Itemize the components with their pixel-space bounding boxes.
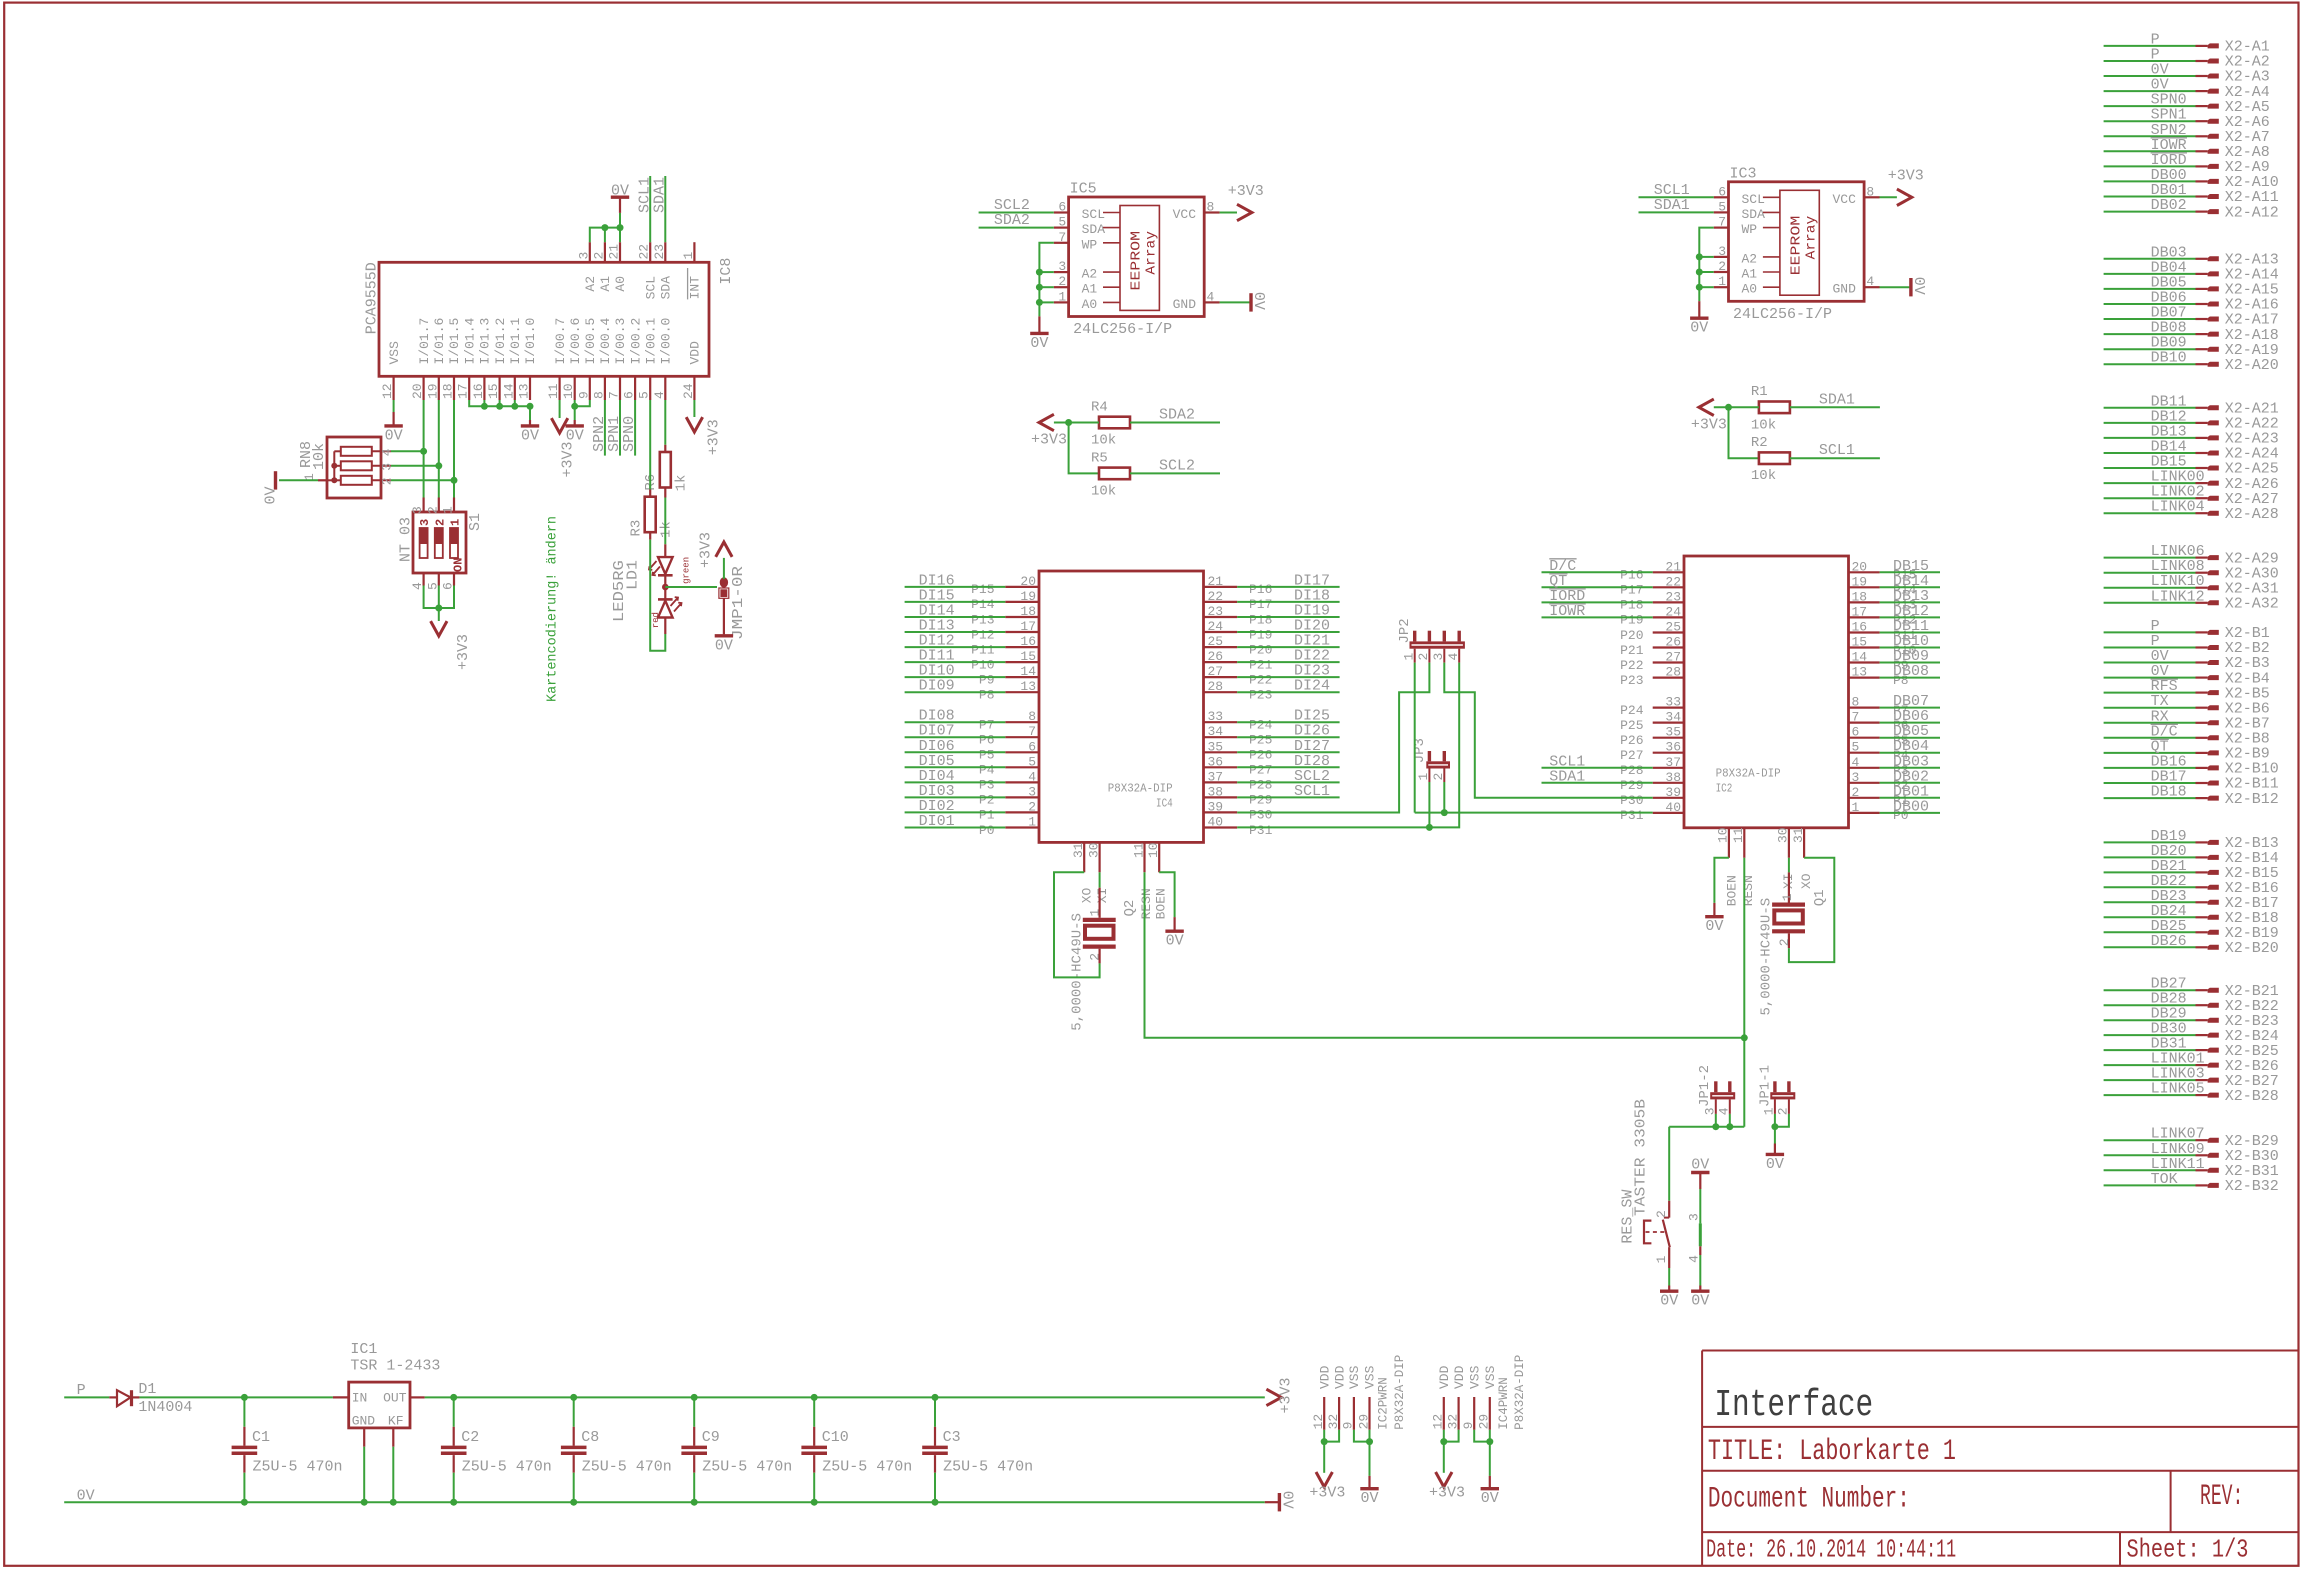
ground 0V at IC8 pin10 net bbox=[566, 424, 584, 427]
svg-text:P19: P19 bbox=[1249, 627, 1272, 642]
ground 0V at rail end bbox=[1265, 1501, 1279, 1503]
svg-text:1: 1 bbox=[681, 252, 696, 260]
svg-text:SDA1: SDA1 bbox=[1654, 197, 1690, 214]
svg-text:1: 1 bbox=[1416, 773, 1431, 781]
svg-text:6: 6 bbox=[1852, 725, 1860, 740]
svg-text:P30: P30 bbox=[1620, 793, 1643, 808]
IC2 pin 8 P7 net DB07 bbox=[1849, 706, 1880, 708]
svg-text:P17: P17 bbox=[1249, 597, 1272, 612]
svg-text:Document Number:: Document Number: bbox=[1708, 1483, 1910, 1517]
svg-text:SCL2: SCL2 bbox=[1159, 457, 1195, 474]
svg-text:P27: P27 bbox=[1249, 763, 1272, 778]
connector pin X2-A27 net LINK02 bbox=[2104, 497, 2196, 499]
svg-text:JP1-2: JP1-2 bbox=[1697, 1065, 1713, 1107]
svg-text:DB18: DB18 bbox=[2151, 784, 2187, 801]
ground 0V at IC8 pin13 net bbox=[521, 424, 539, 427]
svg-text:20: 20 bbox=[1852, 559, 1868, 574]
svg-text:23: 23 bbox=[652, 244, 667, 260]
svg-text:21: 21 bbox=[607, 244, 622, 260]
svg-text:DB08: DB08 bbox=[1893, 663, 1929, 680]
svg-text:10k: 10k bbox=[1751, 417, 1776, 433]
svg-text:20: 20 bbox=[1020, 574, 1036, 589]
svg-text:1: 1 bbox=[449, 519, 463, 526]
svg-text:Z5U-5 470n: Z5U-5 470n bbox=[822, 1459, 912, 1476]
svg-text:3: 3 bbox=[410, 506, 425, 514]
wire IC4 BOEN to ground bbox=[1159, 872, 1174, 917]
svg-text:I/00.0: I/00.0 bbox=[659, 318, 674, 365]
svg-text:P8X32A-DIP: P8X32A-DIP bbox=[1393, 1355, 1407, 1430]
wire IC3 WP to ground chain bbox=[1699, 228, 1713, 302]
svg-text:P31: P31 bbox=[1620, 808, 1644, 823]
IC4 pin 36 P27 net DI28 bbox=[1204, 766, 1238, 768]
connector pin X2-A15 net DB05 bbox=[2104, 288, 2196, 290]
IC4 pin 19 P14 net DI15 bbox=[1005, 601, 1039, 603]
supply +3V3 at S1 bbox=[431, 621, 447, 636]
svg-text:1: 1 bbox=[1718, 274, 1726, 289]
svg-text:2: 2 bbox=[1654, 1210, 1669, 1218]
capacitor C8 Z5U-5 470n bbox=[570, 1394, 577, 1401]
jumper JP1-2 bbox=[1710, 1092, 1735, 1099]
supply +3V3 at IC8 pin24 bbox=[686, 417, 702, 432]
svg-text:X2-A12: X2-A12 bbox=[2225, 204, 2279, 221]
svg-text:A1: A1 bbox=[598, 276, 613, 292]
IC4 pin 13 P8 net DI09 bbox=[1005, 691, 1039, 693]
wire JP2 pin1 to IC2 P31 bbox=[1414, 663, 1416, 813]
svg-text:IC2PWRN: IC2PWRN bbox=[1377, 1377, 1391, 1430]
connector pin X2-B16 net DB22 bbox=[2104, 886, 2196, 888]
svg-text:23: 23 bbox=[1665, 589, 1681, 604]
svg-text:R4: R4 bbox=[1091, 399, 1108, 415]
IC8 pin 17 I/01.4 bbox=[468, 376, 470, 400]
connector pin X2-A22 net DB12 bbox=[2104, 422, 2196, 424]
ground 0V above IC8 bbox=[611, 195, 629, 198]
svg-text:INT: INT bbox=[688, 276, 703, 300]
supply +3V3 at JMP1 bbox=[716, 542, 732, 557]
svg-text:24: 24 bbox=[1665, 604, 1681, 619]
svg-text:C2: C2 bbox=[461, 1429, 479, 1446]
svg-text:5: 5 bbox=[1718, 199, 1726, 214]
svg-text:JMP1-0R: JMP1-0R bbox=[730, 566, 747, 640]
wire IC4 XO loop to crystal bbox=[1054, 872, 1100, 977]
svg-text:10k: 10k bbox=[1091, 483, 1116, 499]
svg-text:I/00.7: I/00.7 bbox=[553, 318, 568, 365]
IC2 pin 4 P3 net DB03 bbox=[1849, 767, 1880, 769]
net SCL1 wire at R2 bbox=[1790, 457, 1880, 459]
IC2 pin 40 P31 bbox=[1653, 812, 1684, 814]
connector pin X2-A12 net DB02 bbox=[2104, 211, 2196, 213]
IC8 pin 6 I/00.2 bbox=[634, 376, 636, 400]
svg-text:Q1: Q1 bbox=[1812, 889, 1828, 906]
IC8 pin 1 INT bbox=[693, 242, 695, 262]
svg-text:IC5: IC5 bbox=[1070, 181, 1097, 198]
svg-text:VDD: VDD bbox=[1437, 1365, 1452, 1389]
svg-text:13: 13 bbox=[1020, 679, 1036, 694]
svg-text:A0: A0 bbox=[613, 276, 628, 292]
svg-text:16: 16 bbox=[1020, 634, 1036, 649]
svg-text:P5: P5 bbox=[979, 748, 995, 763]
connector pin X2-A5 net SPN0 bbox=[2104, 105, 2196, 107]
wire IC2PWRN VDD to +3V3 bbox=[1323, 1430, 1325, 1473]
svg-text:X2-B32: X2-B32 bbox=[2225, 1178, 2279, 1195]
svg-text:P8X32A-DIP: P8X32A-DIP bbox=[1108, 782, 1173, 796]
svg-text:X2-B28: X2-B28 bbox=[2225, 1088, 2279, 1105]
IC2 pin 36 P27 bbox=[1653, 752, 1684, 754]
svg-text:P10: P10 bbox=[971, 657, 994, 672]
svg-text:18: 18 bbox=[1020, 604, 1036, 619]
svg-text:3: 3 bbox=[1687, 1213, 1702, 1221]
svg-text:7: 7 bbox=[1852, 710, 1860, 725]
ground 0V at switch pin4 bbox=[1691, 1289, 1709, 1292]
IC8 pin 4 I/00.0 bbox=[664, 376, 666, 400]
svg-text:IOWR: IOWR bbox=[1549, 603, 1585, 620]
svg-text:VSS: VSS bbox=[1467, 1365, 1482, 1389]
svg-text:15: 15 bbox=[1020, 649, 1036, 664]
svg-text:17: 17 bbox=[1852, 604, 1868, 619]
svg-text:A0: A0 bbox=[1742, 282, 1758, 297]
svg-text:P8X32A-DIP: P8X32A-DIP bbox=[1513, 1355, 1527, 1430]
svg-text:6: 6 bbox=[622, 391, 637, 399]
svg-text:SDA1: SDA1 bbox=[1819, 391, 1855, 408]
ground 0V at IC3 GND bbox=[1909, 278, 1912, 296]
svg-text:0V: 0V bbox=[521, 427, 539, 444]
connector pin X2-B26 net LINK01 bbox=[2104, 1064, 2196, 1066]
IC4 pin 1 P0 net DI01 bbox=[1005, 826, 1039, 828]
ground 0V at IC4PWRN bbox=[1481, 1487, 1499, 1490]
svg-text:8: 8 bbox=[591, 391, 606, 399]
svg-text:TITLE: Laborkarte 1: TITLE: Laborkarte 1 bbox=[1708, 1435, 1956, 1469]
svg-text:7: 7 bbox=[1028, 724, 1036, 739]
svg-text:I/01.6: I/01.6 bbox=[432, 318, 447, 365]
svg-text:1: 1 bbox=[441, 506, 456, 514]
IC4 pin 14 P9 net DI10 bbox=[1005, 676, 1039, 678]
connector pin X2-A19 net DB09 bbox=[2104, 348, 2196, 350]
connector pin X2-B20 net DB26 bbox=[2104, 946, 2196, 948]
connector pin X2-B8 net D/C bbox=[2104, 737, 2196, 739]
IC4 pin 4 P3 net DI04 bbox=[1005, 781, 1039, 783]
IC5 pin 8 VCC to +3V3 bbox=[1204, 211, 1219, 213]
svg-text:I/00.5: I/00.5 bbox=[583, 318, 598, 365]
svg-text:P20: P20 bbox=[1249, 642, 1272, 657]
connector pin X2-B28 net LINK05 bbox=[2104, 1094, 2196, 1096]
svg-text:LD1: LD1 bbox=[625, 560, 642, 590]
connector pin X2-B31 net LINK11 bbox=[2104, 1169, 2196, 1171]
svg-text:P23: P23 bbox=[1249, 688, 1272, 703]
svg-text:I/00.4: I/00.4 bbox=[598, 317, 613, 364]
connector pin X2-B24 net DB30 bbox=[2104, 1034, 2196, 1036]
svg-text:4: 4 bbox=[380, 448, 395, 456]
crystal Q1 5,0000-HC49U-S bbox=[1788, 858, 1790, 873]
svg-text:ON: ON bbox=[452, 558, 466, 572]
svg-text:1k: 1k bbox=[659, 521, 675, 538]
svg-text:24: 24 bbox=[1208, 619, 1224, 634]
svg-text:29: 29 bbox=[1477, 1414, 1492, 1430]
svg-text:P23: P23 bbox=[1620, 673, 1643, 688]
svg-text:Array: Array bbox=[1144, 231, 1160, 275]
RN8 pins to IC8 column wires bbox=[372, 450, 391, 452]
connector pin X2-B30 net LINK09 bbox=[2104, 1154, 2196, 1156]
svg-text:0V: 0V bbox=[1766, 1156, 1784, 1173]
svg-text:BOEN: BOEN bbox=[1154, 888, 1169, 919]
svg-text:Kartencodierung! ändern: Kartencodierung! ändern bbox=[545, 516, 561, 702]
svg-text:P2: P2 bbox=[979, 793, 995, 808]
connector pin X2-A20 net DB10 bbox=[2104, 363, 2196, 365]
svg-text:P18: P18 bbox=[1249, 612, 1272, 627]
svg-text:26: 26 bbox=[1208, 649, 1224, 664]
connector pin X2-A24 net DB14 bbox=[2104, 452, 2196, 454]
svg-text:0V: 0V bbox=[1481, 1490, 1499, 1507]
svg-text:2: 2 bbox=[380, 477, 395, 485]
IC8 pin 2 A1 bbox=[604, 242, 606, 262]
jumper JP1-1 bbox=[1770, 1092, 1795, 1099]
connector pin X2-A31 net LINK10 bbox=[2104, 587, 2196, 589]
svg-text:SCL: SCL bbox=[1742, 192, 1765, 207]
wire IC5 WP to ground chain bbox=[1039, 243, 1053, 317]
svg-text:IC3: IC3 bbox=[1730, 165, 1757, 182]
svg-text:SCL1: SCL1 bbox=[1294, 783, 1330, 800]
wire IC2PWRN VSS to ground bbox=[1369, 1430, 1371, 1476]
svg-text:GND: GND bbox=[1173, 297, 1197, 312]
resistor R3 1k bbox=[649, 400, 651, 489]
svg-text:VSS: VSS bbox=[1483, 1365, 1498, 1389]
S1 top pins 3 2 1 bbox=[423, 498, 425, 513]
svg-text:C10: C10 bbox=[822, 1429, 849, 1446]
svg-text:I/01.2: I/01.2 bbox=[493, 318, 508, 365]
svg-text:P17: P17 bbox=[1620, 583, 1643, 598]
svg-text:P25: P25 bbox=[1620, 718, 1643, 733]
svg-text:Interface: Interface bbox=[1714, 1384, 1873, 1427]
svg-text:29: 29 bbox=[1356, 1414, 1371, 1430]
svg-text:5: 5 bbox=[1852, 740, 1860, 755]
connector pin X2-B15 net DB21 bbox=[2104, 871, 2196, 873]
resistor R2 10k bbox=[1759, 452, 1790, 464]
svg-text:SDA1: SDA1 bbox=[651, 177, 668, 213]
svg-text:DI01: DI01 bbox=[919, 813, 955, 830]
IC2 pin 35 P26 bbox=[1653, 737, 1684, 739]
ic IC5 24LC256-I/P body bbox=[1069, 197, 1205, 317]
wire IC2 BOEN to ground bbox=[1714, 858, 1729, 903]
svg-text:2: 2 bbox=[1777, 938, 1792, 946]
IC3 EEPROM array block bbox=[1780, 190, 1819, 295]
svg-text:8: 8 bbox=[1866, 184, 1874, 199]
svg-text:IC4: IC4 bbox=[1156, 797, 1173, 811]
svg-text:19: 19 bbox=[1020, 589, 1036, 604]
IC4 pin 6 P5 net DI06 bbox=[1005, 751, 1039, 753]
IC4 pin 21 P16 net DI17 bbox=[1204, 586, 1238, 588]
svg-text:DI09: DI09 bbox=[919, 678, 955, 695]
svg-text:X2-B20: X2-B20 bbox=[2225, 940, 2279, 957]
IC4 pin 26 P21 net DI22 bbox=[1204, 661, 1238, 663]
svg-text:10: 10 bbox=[1146, 842, 1161, 858]
svg-text:P3: P3 bbox=[979, 778, 995, 793]
svg-text:1N4004: 1N4004 bbox=[138, 1399, 192, 1416]
ground 0V at IC4 BOEN bbox=[1165, 930, 1183, 933]
svg-text:8: 8 bbox=[1207, 200, 1215, 215]
IC2 pin 16 P11 net DB11 bbox=[1849, 631, 1880, 633]
svg-text:0V: 0V bbox=[263, 486, 280, 504]
IC4 pin 2 P1 net DI02 bbox=[1005, 811, 1039, 813]
IC1 pins IN OUT GND KF bbox=[333, 1396, 349, 1398]
IC3 pin 4 GND bbox=[1864, 286, 1879, 288]
IC4 pin 25 P20 net DI21 bbox=[1204, 646, 1238, 648]
connector pin X2-A10 net DB00 bbox=[2104, 180, 2196, 182]
net SDA1 wire at R1 bbox=[1790, 406, 1880, 408]
connector pin X2-B6 net TX bbox=[2104, 707, 2196, 709]
IC2 pin 6 P5 net DB05 bbox=[1849, 737, 1880, 739]
IC8 pin 14 I/01.1 bbox=[514, 376, 516, 400]
svg-text:3: 3 bbox=[418, 519, 432, 526]
svg-text:SCL1: SCL1 bbox=[1819, 442, 1855, 459]
IC4 pin 37 P28 net SCL2 bbox=[1204, 781, 1238, 783]
svg-text:P1: P1 bbox=[979, 808, 995, 823]
svg-text:39: 39 bbox=[1665, 785, 1681, 800]
svg-text:P28: P28 bbox=[1620, 763, 1643, 778]
jumper JP2 bbox=[1410, 641, 1465, 648]
wire +3V3 to R4 R5 bbox=[1054, 422, 1099, 424]
IC5 pins 3 2 1 A2 A1 A0 bbox=[1054, 271, 1069, 273]
svg-text:14: 14 bbox=[1020, 664, 1036, 679]
svg-text:2: 2 bbox=[1852, 785, 1860, 800]
svg-text:A2: A2 bbox=[583, 276, 598, 292]
svg-text:10k: 10k bbox=[311, 443, 328, 470]
net SCL2 wire bbox=[979, 212, 1054, 214]
svg-text:SDA: SDA bbox=[659, 276, 674, 300]
svg-text:SCL: SCL bbox=[643, 276, 658, 299]
svg-text:green: green bbox=[682, 557, 692, 584]
svg-text:IC1: IC1 bbox=[350, 1341, 377, 1358]
svg-text:3: 3 bbox=[576, 252, 591, 260]
IC8 pin 7 I/00.3 bbox=[619, 376, 621, 400]
svg-text:Z5U-5 470n: Z5U-5 470n bbox=[253, 1459, 343, 1476]
svg-text:11: 11 bbox=[1731, 827, 1746, 843]
net SPN0 from IC8 pin6 bbox=[634, 400, 636, 456]
connector pin X2-B11 net DB17 bbox=[2104, 782, 2196, 784]
connector pin X2-B3 net 0V bbox=[2104, 662, 2196, 664]
switch actuator bracket bbox=[1644, 1221, 1651, 1244]
connector pin X2-A18 net DB08 bbox=[2104, 333, 2196, 335]
svg-text:0V: 0V bbox=[715, 637, 733, 654]
connector pin X2-B23 net DB29 bbox=[2104, 1019, 2196, 1021]
connector pin X2-A4 net 0V bbox=[2104, 90, 2196, 92]
wire JMP1 to ground bbox=[723, 598, 725, 634]
jumper JMP1-0R bbox=[720, 577, 728, 587]
led LD1 red half bbox=[658, 601, 673, 618]
resistor R4 10k bbox=[1099, 417, 1130, 429]
svg-text:18: 18 bbox=[1852, 589, 1868, 604]
connector pin X2-B2 net P bbox=[2104, 647, 2196, 649]
svg-text:4: 4 bbox=[1852, 755, 1860, 770]
wire JP1-1 pins to ground bbox=[1774, 1114, 1776, 1144]
svg-text:P7: P7 bbox=[979, 718, 995, 733]
svg-text:P26: P26 bbox=[1249, 748, 1272, 763]
connector pin X2-A17 net DB07 bbox=[2104, 318, 2196, 320]
svg-text:Z5U-5 470n: Z5U-5 470n bbox=[582, 1459, 672, 1476]
wire IC4PWRN VSS to ground bbox=[1489, 1430, 1491, 1476]
IC2 pin 14 P9 net DB09 bbox=[1849, 661, 1880, 663]
svg-text:+3V3: +3V3 bbox=[698, 532, 715, 568]
svg-text:GND: GND bbox=[1832, 282, 1856, 297]
svg-text:P14: P14 bbox=[971, 597, 995, 612]
svg-text:P16: P16 bbox=[1249, 582, 1272, 597]
wire R3 bottom loop to red LED bbox=[649, 532, 651, 539]
svg-text:0V: 0V bbox=[1030, 335, 1048, 352]
connector pin X2-B17 net DB23 bbox=[2104, 901, 2196, 903]
supply +3V3 at IC3 VCC bbox=[1897, 189, 1912, 205]
svg-text:3: 3 bbox=[1852, 770, 1860, 785]
svg-text:P13: P13 bbox=[971, 612, 994, 627]
switch RES_SW TASTER 3305B pole 1-2 bbox=[1668, 1127, 1670, 1201]
power pins IC4PWRN P8X32A-DIP bbox=[1443, 1397, 1445, 1430]
svg-text:P27: P27 bbox=[1620, 748, 1643, 763]
svg-text:TSR 1-2433: TSR 1-2433 bbox=[350, 1357, 440, 1374]
IC3 pins 3 2 1 A2 A1 A0 bbox=[1714, 256, 1729, 258]
svg-text:DB00: DB00 bbox=[1893, 798, 1929, 815]
svg-text:19: 19 bbox=[1852, 574, 1868, 589]
svg-text:17: 17 bbox=[1020, 619, 1036, 634]
svg-text:0V: 0V bbox=[1910, 277, 1927, 295]
svg-text:40: 40 bbox=[1208, 815, 1224, 830]
connector pin X2-B19 net DB25 bbox=[2104, 931, 2196, 933]
supply +3V3 at IC2PWRN bbox=[1316, 1472, 1332, 1487]
ic IC3 24LC256-I/P body bbox=[1729, 182, 1865, 301]
svg-text:35: 35 bbox=[1665, 725, 1681, 740]
IC4 pin 15 P10 net DI11 bbox=[1005, 661, 1039, 663]
svg-text:+3V3: +3V3 bbox=[1228, 183, 1264, 200]
svg-text:R5: R5 bbox=[1091, 450, 1108, 466]
supply +3V3 at P rail end bbox=[1266, 1389, 1281, 1405]
svg-text:14: 14 bbox=[501, 383, 516, 399]
ground 0V at IC2PWRN bbox=[1360, 1487, 1378, 1490]
wire IC4PWRN VDD to +3V3 bbox=[1443, 1430, 1445, 1473]
svg-text:2: 2 bbox=[1058, 274, 1066, 289]
svg-text:21: 21 bbox=[1665, 559, 1681, 574]
svg-text:GND: GND bbox=[352, 1414, 376, 1429]
svg-text:0V: 0V bbox=[385, 427, 403, 444]
connector pin X2-A16 net DB06 bbox=[2104, 303, 2196, 305]
svg-text:1: 1 bbox=[1852, 800, 1860, 815]
svg-text:A0: A0 bbox=[1082, 297, 1098, 312]
IC8 pin 24 VDD bbox=[693, 376, 695, 400]
IC2 pin 3 P2 net DB02 bbox=[1849, 782, 1880, 784]
svg-text:21: 21 bbox=[1208, 574, 1224, 589]
connector pin X2-A26 net LINK00 bbox=[2104, 482, 2196, 484]
IC2 pin 20 P15 net DB15 bbox=[1849, 571, 1880, 573]
svg-text:0V: 0V bbox=[566, 427, 584, 444]
svg-text:P8X32A-DIP: P8X32A-DIP bbox=[1716, 767, 1781, 781]
power pins IC2PWRN P8X32A-DIP bbox=[1323, 1397, 1325, 1430]
connector pin X2-A2 net P bbox=[2104, 60, 2196, 62]
diode D1 1N4004 bbox=[109, 1396, 117, 1398]
ground 0V at IC2 BOEN bbox=[1705, 915, 1723, 918]
IC8 pin 23 SDA bbox=[664, 242, 666, 262]
svg-text:P8: P8 bbox=[979, 688, 995, 703]
svg-text:I/01.7: I/01.7 bbox=[417, 318, 432, 365]
wire IC8 pins 3 2 21 to ground net bbox=[590, 228, 620, 243]
net SCL2 wire at R5 bbox=[1130, 472, 1220, 474]
connector pin X2-A1 net P bbox=[2104, 45, 2196, 47]
IC2 bottom pins 10 11 30 31 bbox=[1728, 828, 1730, 858]
IC5 EEPROM array block bbox=[1120, 206, 1159, 311]
svg-text:VSS: VSS bbox=[1347, 1365, 1362, 1389]
ic IC8 PCA9555D body bbox=[379, 262, 709, 376]
svg-text:SDA: SDA bbox=[1742, 207, 1766, 222]
ground 0V at JMP1 bbox=[715, 634, 733, 637]
svg-text:WP: WP bbox=[1082, 237, 1098, 252]
svg-text:9: 9 bbox=[1341, 1422, 1356, 1430]
svg-text:38: 38 bbox=[1208, 784, 1224, 799]
svg-text:30: 30 bbox=[1086, 842, 1101, 858]
svg-text:6: 6 bbox=[1028, 739, 1036, 754]
svg-text:Array: Array bbox=[1804, 216, 1820, 260]
